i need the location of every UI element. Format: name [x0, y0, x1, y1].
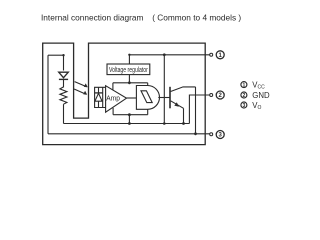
svg-text:( Common to 4 models ): ( Common to 4 models ): [152, 13, 241, 23]
wire: collector to output node: [195, 87, 197, 134]
junction regulator output: [128, 81, 131, 84]
wire: bus to ground rail: [128, 115, 130, 124]
wire: regulator output: [128, 75, 130, 83]
junction on Vcc rail: [163, 53, 166, 56]
wire: supply to schmitt gate: [147, 83, 149, 86]
wire: amp ground stub: [112, 108, 114, 115]
junction: LED anode corner: [62, 54, 64, 56]
wire: gate output to transistor base: [158, 97, 169, 99]
junction: Vcc rail start: [128, 54, 130, 56]
resistor R1 zigzag: [60, 87, 67, 104]
svg-text:VCC: VCC: [252, 81, 265, 91]
svg-text:GND: GND: [252, 91, 270, 100]
wire: LED cathode to resistor: [63, 79, 65, 87]
wire: LED loop top: [48, 54, 64, 56]
pin 3 terminal: [210, 133, 213, 136]
title text: [41, 13, 241, 23]
junction collector/output: [194, 132, 197, 135]
photodiode PD loop: [95, 87, 106, 107]
pin number 3: [216, 131, 224, 139]
op-amp U1 (Amp): [106, 86, 127, 113]
light ray arrow 1: [75, 82, 88, 88]
junction on ground rail: [128, 122, 131, 125]
pin 1 terminal: [210, 53, 213, 56]
wire: resistor to ground rail: [63, 104, 65, 123]
wire: lower supply/common bus: [113, 114, 148, 116]
wire: internal ground rail: [64, 123, 190, 125]
voltage regulator U2 box: [107, 64, 150, 75]
schmitt trigger gate U3: [136, 86, 159, 110]
wire: amp output to gate: [127, 97, 137, 99]
wire: gate ground stub: [147, 109, 149, 114]
svg-text:VO: VO: [252, 101, 261, 111]
wire: supply to amp: [112, 83, 114, 90]
wire: LED anode lead: [63, 55, 65, 70]
photodiode PD symbol: [94, 87, 102, 107]
pin number 1: [216, 51, 224, 59]
junction: vertical to ground rail: [163, 122, 166, 125]
pin 2 terminal: [210, 94, 213, 97]
LED D1: [59, 72, 69, 79]
svg-text:3: 3: [243, 103, 246, 109]
svg-text:2: 2: [243, 93, 246, 99]
light ray arrow 2: [74, 89, 87, 95]
wire: supply distribution line: [113, 82, 148, 84]
svg-text:1: 1: [243, 83, 246, 89]
wire: output node line to pin 3: [48, 133, 210, 135]
wire: emitter to ground rail: [183, 108, 185, 123]
svg-text:Voltage regulator: Voltage regulator: [109, 67, 148, 74]
legend pin 1 Vcc: [241, 81, 265, 91]
legend pin 2 GND: [241, 91, 270, 100]
wire: ground rail riser to pin 2: [189, 95, 209, 124]
legend pin 3 Vo: [241, 101, 262, 111]
pin number 2: [216, 91, 224, 99]
transistor Q1: [170, 87, 196, 109]
wire: Vcc rail: [129, 55, 209, 64]
junction on lower bus: [128, 113, 131, 116]
junction emitter/ground: [182, 122, 185, 125]
svg-text:Internal connection diagram: Internal connection diagram: [41, 13, 143, 23]
wire: Vcc to ground rail vertical: [163, 55, 165, 124]
package outline with slot between emitter and detector sections: [43, 43, 206, 145]
wire: LED loop left vertical: [47, 55, 49, 134]
svg-text:Amp: Amp: [106, 95, 120, 102]
